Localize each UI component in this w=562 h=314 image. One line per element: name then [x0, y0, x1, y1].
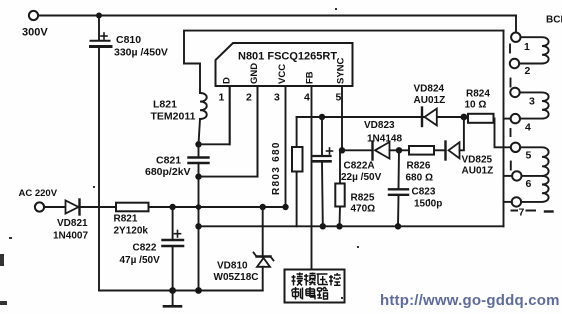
svg-text:AU01Z: AU01Z — [414, 95, 446, 106]
svg-text:VD810: VD810 — [217, 261, 248, 272]
wire pin6 stub — [504, 175, 513, 177]
node junction on 300V rail — [96, 13, 102, 19]
svg-text:3: 3 — [529, 96, 535, 108]
transformer pin 4 — [511, 114, 520, 123]
wire L821 bottom to node — [199, 119, 201, 144]
transformer 7 dashes — [512, 210, 518, 212]
node VD823/R826/C823 junction — [396, 147, 402, 153]
transformer winding 5-6-7 — [520, 147, 548, 202]
wire C822A bottom column — [321, 163, 324, 227]
svg-text:680 Ω: 680 Ω — [406, 173, 433, 184]
wire secondary rail x=504 — [503, 31, 505, 227]
svg-text:C822A: C822A — [344, 161, 375, 172]
capacitor C810 — [91, 33, 112, 47]
svg-text:R824: R824 — [466, 89, 490, 100]
wire node to pin1 D — [199, 86, 230, 144]
wire FB row y=117 — [297, 116, 464, 118]
svg-text:W05Z18C: W05Z18C — [214, 272, 259, 283]
node R825 bottom — [336, 223, 342, 229]
wire 300V top rail — [38, 15, 516, 17]
node SYNC/VD823 junction — [339, 147, 345, 153]
svg-text:AU01Z: AU01Z — [462, 166, 494, 177]
transformer pin 1 — [511, 33, 520, 42]
node VD824/R824/VD825 junction — [461, 114, 468, 121]
control box wire from FB — [285, 270, 345, 303]
wire VD825 up to node — [460, 117, 464, 150]
wire C810 column upper — [98, 16, 100, 41]
svg-text:2: 2 — [525, 65, 531, 77]
wire mid rail y=226.3 — [199, 225, 504, 227]
svg-text:BCK: BCK — [546, 15, 562, 26]
wire pin7 stub — [504, 201, 512, 203]
diode VD825 — [446, 142, 460, 160]
node C823 bottom — [395, 223, 401, 229]
node source/mid rail — [195, 223, 201, 229]
pin 5 SYNC line — [341, 86, 343, 150]
svg-text:330µ /450V: 330µ /450V — [114, 47, 168, 59]
svg-text:22µ /50V: 22µ /50V — [341, 172, 382, 183]
svg-text:VD823: VD823 — [364, 120, 395, 131]
capacitor C822 — [163, 231, 184, 247]
node C822 top — [169, 204, 175, 210]
wire drain loop top y=30.6 — [184, 31, 504, 64]
wire C822A top column — [321, 117, 323, 155]
control box text 接稳压控制电路 (stroke glyphs) — [292, 273, 341, 300]
svg-text:47µ /50V: 47µ /50V — [120, 255, 161, 266]
terminal 300V input — [29, 11, 38, 20]
resistor R825 — [335, 150, 344, 226]
node source/ground — [195, 287, 202, 294]
svg-text:VD824: VD824 — [414, 84, 445, 95]
resistor R826 — [409, 146, 434, 155]
node C822/ground — [169, 287, 176, 294]
wire VD821 to R821 — [80, 206, 117, 208]
svg-text:R825: R825 — [351, 193, 375, 204]
svg-text:4: 4 — [525, 122, 531, 134]
node C821/GND junction — [195, 173, 201, 179]
diode VD824 — [422, 108, 437, 127]
wire C821 bottom to node — [198, 164, 200, 177]
svg-text:FB: FB — [305, 71, 316, 84]
svg-text:2: 2 — [246, 92, 252, 104]
svg-text:VCC: VCC — [277, 64, 288, 84]
svg-text:C810: C810 — [116, 34, 141, 46]
node source/AC row — [196, 204, 202, 210]
svg-text:7: 7 — [519, 207, 525, 219]
wire R824 to pin5 — [494, 119, 511, 148]
svg-text:L821: L821 — [153, 99, 177, 111]
transformer polarity ticks — [509, 45, 511, 53]
transformer pin 6 — [512, 171, 521, 180]
node C822A top — [319, 114, 325, 120]
svg-text:1N4007: 1N4007 — [53, 231, 88, 242]
svg-text:R803 680: R803 680 — [271, 141, 282, 195]
svg-text:D: D — [222, 77, 233, 84]
svg-text:2Y120k: 2Y120k — [114, 226, 149, 237]
resistor R803 — [292, 117, 303, 226]
wire C822 bottom column — [172, 247, 174, 291]
svg-text:C821: C821 — [156, 155, 181, 167]
svg-text:GND: GND — [249, 63, 260, 84]
node VD810 top — [260, 204, 266, 210]
wire node to pin2 GND — [199, 86, 258, 177]
transformer T lead-in — [515, 16, 517, 33]
svg-text:1: 1 — [524, 41, 530, 53]
svg-text:3: 3 — [274, 92, 280, 104]
node VCC end — [282, 204, 288, 210]
wire R826 to VD825 — [434, 149, 445, 151]
wire winding 6 tap — [522, 175, 543, 177]
pin 3 VCC line — [285, 86, 287, 207]
svg-text:5: 5 — [336, 92, 342, 104]
svg-text:300V: 300V — [22, 27, 48, 39]
node L821/D junction — [195, 141, 201, 147]
svg-text:http://www.go-gddq.com: http://www.go-gddq.com — [380, 292, 560, 309]
svg-text:VD825: VD825 — [462, 155, 493, 166]
wire R821 to VCC — [149, 206, 286, 208]
wire AC to VD821 — [44, 206, 65, 208]
capacitor C822A — [314, 148, 333, 161]
pin 2 line — [257, 86, 259, 177]
node C822A bottom — [320, 223, 326, 229]
transformer pin 3 — [510, 88, 519, 97]
svg-text:10 Ω: 10 Ω — [465, 100, 487, 111]
wire VD823 row — [342, 149, 372, 151]
svg-text:N801 FSCQ1265RT: N801 FSCQ1265RT — [238, 51, 337, 63]
svg-text:1: 1 — [219, 92, 225, 104]
pin 1 line — [229, 86, 231, 144]
transformer winding 3-4 — [520, 92, 549, 118]
wire source column down — [198, 177, 200, 291]
wire C810 column to ground rail — [98, 48, 100, 291]
svg-text:5: 5 — [526, 150, 532, 162]
wire L821 jog — [184, 64, 200, 94]
capacitor C821 — [189, 158, 209, 164]
diode VD810 zener — [254, 207, 274, 291]
ground symbol — [164, 291, 181, 307]
svg-text:470Ω: 470Ω — [351, 204, 376, 215]
IC N801 FSCQ1265RT body — [216, 43, 353, 86]
pin 4 FB line — [311, 86, 313, 270]
transformer pin 2 — [510, 59, 519, 68]
terminal AC 220V — [35, 202, 44, 211]
capacitor C823 — [389, 150, 408, 226]
wire node down to C821 — [198, 144, 200, 156]
svg-text:SYNC: SYNC — [336, 57, 347, 84]
resistor R821 — [116, 203, 149, 212]
svg-text:TEM2011: TEM2011 — [151, 111, 196, 123]
diode VD821 — [66, 200, 80, 215]
svg-text:R821: R821 — [114, 214, 138, 225]
svg-text:1N4148: 1N4148 — [367, 134, 402, 145]
transformer pin 7 — [512, 197, 521, 206]
wire ground rail — [99, 290, 263, 292]
resistor R824 — [464, 114, 494, 123]
svg-text:4: 4 — [304, 92, 310, 104]
inductor L821 — [200, 93, 207, 119]
scan noise specks — [0, 8, 430, 305]
diode VD823 — [373, 142, 390, 160]
wire pin4 stub — [504, 118, 511, 120]
wire C822 top column — [172, 207, 174, 239]
svg-text:C823: C823 — [412, 187, 436, 198]
svg-text:AC 220V: AC 220V — [19, 188, 58, 199]
transformer pin 5 — [511, 143, 520, 152]
svg-text:VD821: VD821 — [57, 218, 88, 229]
transformer winding 1-2 — [519, 37, 548, 63]
wire VD823 to node — [390, 149, 410, 151]
svg-text:C822: C822 — [133, 243, 157, 254]
svg-text:680p/2kV: 680p/2kV — [145, 166, 191, 178]
svg-text:6: 6 — [526, 178, 532, 190]
svg-text:R826: R826 — [407, 161, 431, 172]
